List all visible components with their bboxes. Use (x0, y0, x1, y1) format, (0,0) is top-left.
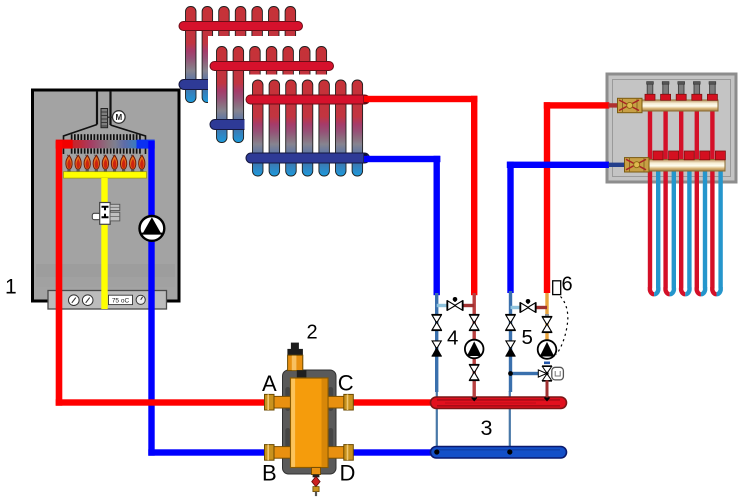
svg-text:B: B (262, 461, 277, 486)
supply manifold bar (red) (431, 397, 567, 409)
radiator RAD3 (246, 80, 370, 176)
pipe: floor supply drop (red) (544, 102, 550, 293)
pipe: boiler return to separator B (blue horizontal) (148, 449, 434, 455)
flue fan (101, 109, 108, 128)
return riser through manifold (thin, group 5) (509, 391, 511, 453)
exchanger blue elbow (137, 140, 155, 149)
branch junction node (508, 371, 513, 376)
shutoff valve V5a (return) (505, 315, 516, 331)
RAD3 return header (246, 153, 370, 163)
return drop from floor (pure blue) (507, 162, 513, 293)
radiator RAD1 (179, 7, 303, 103)
floor heating manifold cabinet (507, 74, 736, 294)
svg-text:D: D (340, 461, 356, 486)
hydraulic separator 2 (265, 343, 354, 497)
gas rail yellow (64, 172, 147, 178)
svg-text:3: 3 (481, 416, 493, 440)
junction node on supply bar (group 5) (544, 395, 550, 402)
svg-text:C: C (338, 371, 354, 396)
boiler 1 (33, 90, 180, 456)
radiator RAD2 (210, 47, 334, 143)
RAD1 return header (179, 80, 303, 90)
return manifold bar (bottom) (647, 151, 725, 171)
boiler casing (33, 90, 180, 301)
control panel (48, 291, 167, 310)
svg-text:6: 6 (562, 274, 573, 296)
sensor 6 symbol (553, 281, 561, 295)
svg-text:M: M (115, 113, 122, 122)
panel dial 1 (69, 295, 80, 306)
exchanger red elbow (56, 140, 73, 149)
svg-text:A: A (262, 371, 277, 396)
radiator group: three staggered radiators (179, 7, 381, 188)
port A stub (266, 396, 291, 408)
return manifold valve (brass) (625, 158, 650, 172)
port D stub (328, 447, 353, 459)
main piping (56, 96, 478, 456)
junction node on return bar (group 4) (434, 449, 439, 454)
svg-text:75 oC: 75 oC (112, 297, 130, 304)
RAD3 supply header (246, 95, 370, 104)
return manifold bar (blue) (431, 447, 567, 459)
distribution manifolds 3 (431, 391, 567, 458)
white backdrop of RAD2 (208, 36, 344, 149)
check valve V5b (return) (506, 341, 516, 356)
bypass right segment (536, 306, 547, 309)
return loop pipes (light blue) (656, 171, 723, 288)
shutoff valve V4c (supply) (469, 315, 480, 331)
supply manifold bar (top) (641, 82, 718, 111)
drain valve (312, 468, 321, 475)
svg-text:5: 5 (522, 326, 533, 349)
pipe: radiator return horizontal (blue) (364, 156, 440, 162)
cabinet box (607, 74, 736, 182)
pipe: floor supply horizontal (red) (544, 102, 610, 108)
pump group 5 (floor circuit, mixed) (505, 162, 563, 398)
bypass left segment (511, 306, 521, 309)
burner flame row (66, 155, 145, 172)
pipe: radiator return drop (blue) (434, 156, 440, 295)
separator vessel body (291, 378, 329, 468)
svg-text:4: 4 (447, 327, 458, 350)
cold feed tick (544, 362, 550, 365)
flue duct (96, 91, 98, 125)
RAD2 return header (210, 120, 334, 130)
loop u-bends (650, 288, 721, 295)
pipe: boiler supply to separator A (red horizontal) (56, 399, 435, 405)
junction node on return bar (group 5) (507, 449, 512, 454)
balancing valve (bypass) (520, 302, 536, 313)
boiler return pipe (blue, down) (148, 141, 154, 456)
junction node on supply bar (group 4) (471, 395, 477, 402)
separator frame (283, 370, 337, 474)
RAD3 supply stub cap (364, 96, 368, 104)
shutoff valve V4d (supply) (469, 365, 480, 381)
interior shading band (36, 264, 175, 277)
RAD3 return stub cap (364, 154, 368, 163)
port B stub (266, 447, 291, 459)
return riser through manifold (thin, group 4) (436, 391, 438, 453)
pump P5 (538, 340, 557, 359)
supply line (muted red) (473, 293, 476, 398)
port C stub (328, 396, 353, 408)
pump P4 (465, 340, 484, 359)
panel gauge (136, 295, 145, 304)
svg-text:1: 1 (5, 276, 17, 299)
supply loop pipes (red, behind manifolds) (648, 111, 715, 288)
RAD2 supply header (210, 62, 334, 71)
panel display 75 oC (109, 295, 133, 304)
return line (steel blue) (435, 293, 438, 392)
vent connector fitting (297, 370, 307, 379)
heat exchanger fins (71, 134, 141, 154)
check valve V4b (return) (432, 341, 442, 356)
pump group 4 (radiator circuit) (431, 293, 483, 398)
valve to manifold (dark red) (546, 380, 549, 397)
fan motor M (108, 116, 113, 118)
heat exchanger gradient tube (64, 140, 146, 148)
pipe: radiator supply drop (red) (471, 96, 477, 295)
svg-text:2: 2 (307, 322, 318, 344)
bypass left segment (437, 304, 448, 307)
RAD1 supply header (179, 22, 303, 31)
supply manifold valve (brass) (618, 98, 643, 112)
pipe: floor return horizontal (blue, over red) (507, 162, 609, 168)
boiler pump (140, 216, 165, 241)
white backdrop of RAD3 (245, 75, 381, 188)
mixed flow line (orange) (545, 292, 548, 341)
bypass right segment (463, 304, 475, 307)
air vent (291, 343, 299, 350)
panel dial 2 (82, 295, 93, 306)
pipe: radiator supply horizontal (red) (364, 96, 477, 102)
gas valve (92, 203, 120, 225)
boiler supply pipe (red, down) (56, 141, 63, 406)
balancing valve (bypass) (447, 300, 463, 311)
branch to mixing valve (509, 372, 541, 375)
mixing valve actuator (552, 367, 564, 380)
combustion hood (64, 125, 98, 155)
control wire (dashed arc) (556, 297, 568, 355)
boiler gas pipe (yellow, down) (101, 178, 107, 309)
mixing valve M5 (3-way) (538, 366, 552, 381)
return line (steel blue) (509, 291, 512, 392)
shutoff valve V4a (return) (431, 315, 442, 331)
shutoff valve V5c (supply) (545, 314, 549, 317)
